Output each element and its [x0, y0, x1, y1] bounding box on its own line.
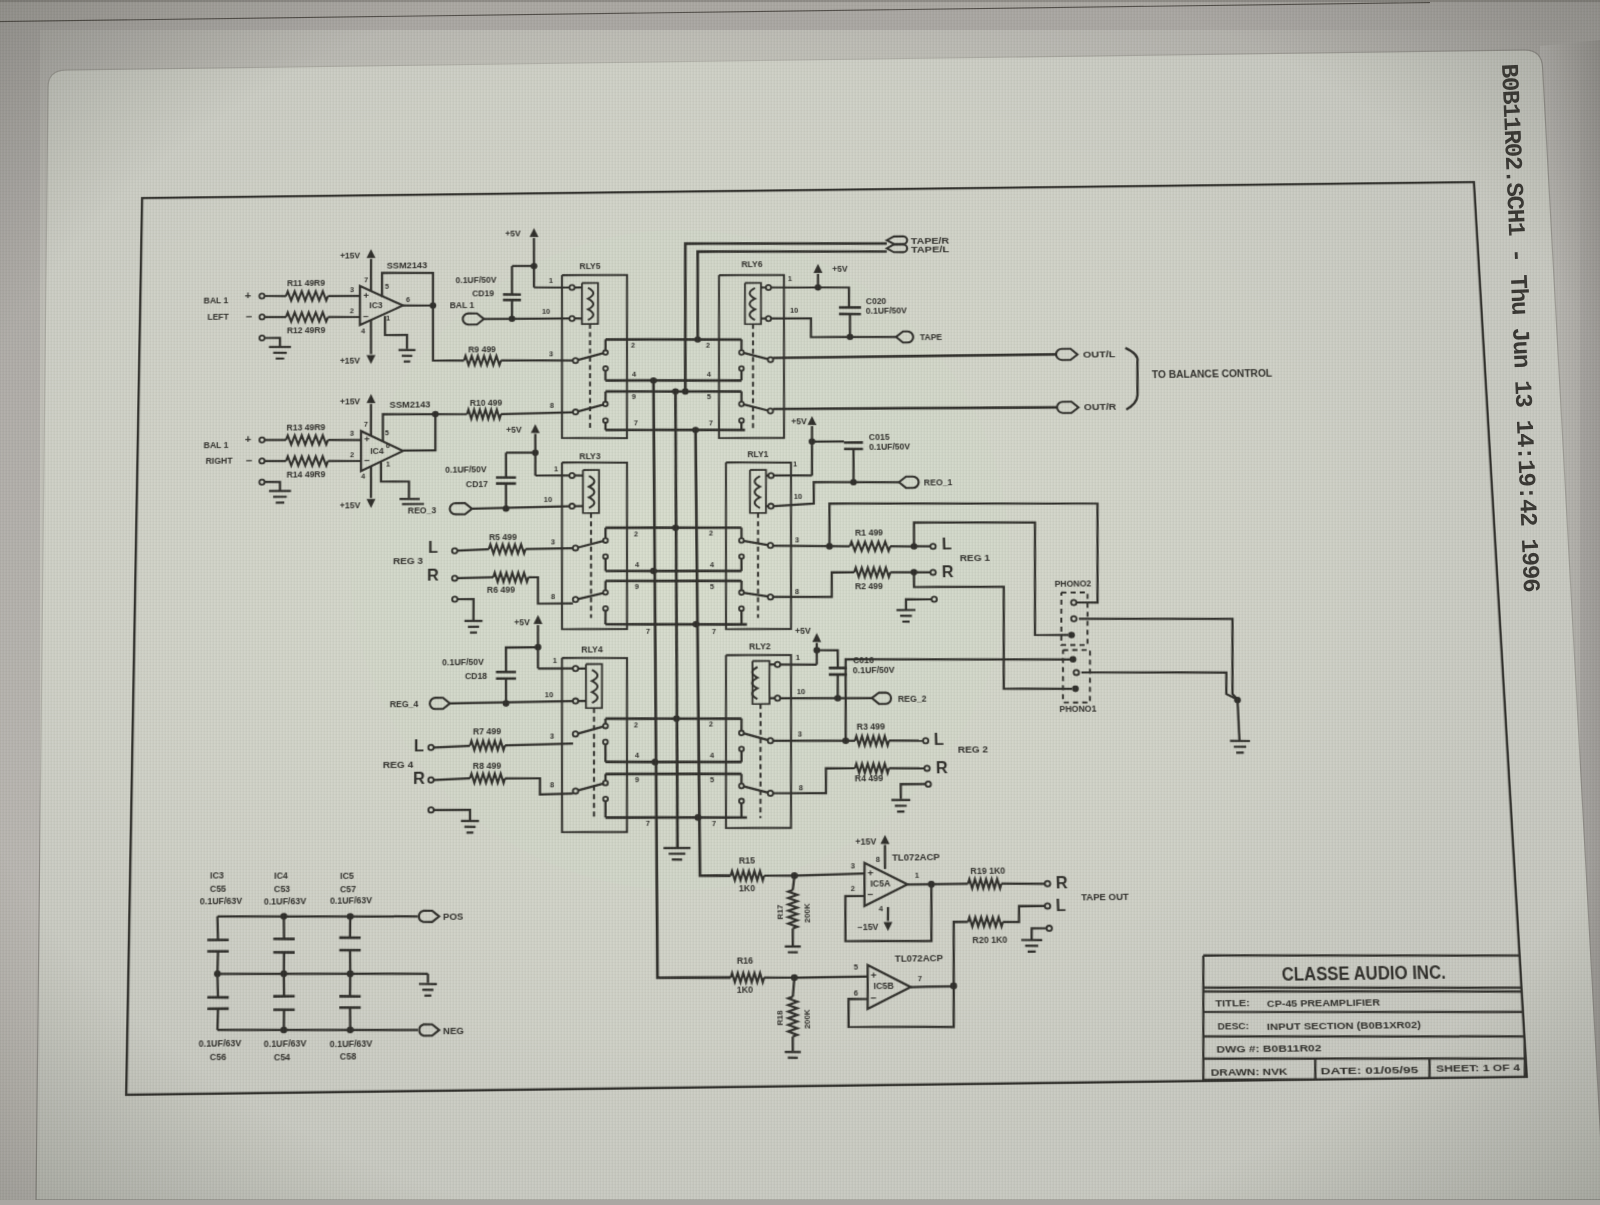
junction — [650, 377, 657, 383]
resistor R10 499 — [467, 409, 501, 419]
RLY6 switch A throws — [739, 350, 744, 355]
wire RLY2 swA to R3 — [773, 740, 855, 742]
wire IC5A out — [907, 883, 968, 886]
wire — [771, 287, 849, 309]
wire — [528, 577, 573, 604]
net tag NEG — [419, 1024, 439, 1036]
wire — [265, 460, 286, 463]
resistor R5 499 — [489, 544, 526, 554]
schematic border frame — [126, 182, 1527, 1095]
terminal R TAPE OUT — [1045, 881, 1051, 886]
junction — [692, 427, 699, 434]
RLY5 switch A throws — [603, 350, 608, 355]
wire — [1001, 883, 1045, 884]
RLY2 coil pin1 — [775, 662, 780, 667]
resistor R15 1K0 — [731, 871, 765, 881]
wire — [450, 701, 573, 703]
wire OUT/R — [773, 406, 1057, 411]
RLY3 coil box — [583, 470, 600, 513]
wire — [773, 474, 812, 477]
RLY6 coil box — [744, 283, 761, 324]
RLY2 switch A throws — [739, 731, 744, 736]
op-amp IC5B TL072ACP — [867, 965, 912, 1009]
tier2 pin4 bus — [606, 569, 742, 572]
wire RLY2 swB to R4 — [773, 768, 856, 794]
net tag REO_1 — [899, 476, 919, 488]
wire bus R channel — [694, 430, 731, 876]
RLY6 coil pin10 — [766, 316, 771, 321]
RLY6 throw stubs A — [740, 340, 743, 351]
RLY6 switch B throws — [739, 402, 744, 407]
RLY3 switch A common — [573, 545, 578, 550]
title block rule 3 — [1203, 1032, 1524, 1040]
wire RLY1 swA to R1 — [773, 545, 850, 547]
RLY4 stubs B — [604, 774, 606, 781]
wire — [265, 295, 286, 298]
wire — [890, 545, 930, 548]
RLY3 coil pin1 — [569, 473, 574, 478]
net tag TAPE — [896, 331, 913, 342]
resistor R2 499 — [854, 567, 890, 577]
RLY5 coil pin10 — [569, 316, 574, 321]
PHONO2 pin1 — [1071, 600, 1077, 605]
wire — [501, 360, 573, 362]
IC5B feedback — [848, 986, 955, 1029]
REG3 ground terminal — [452, 597, 457, 602]
IC5A feedback — [844, 884, 933, 942]
TAPE OUT ground terminal — [1046, 926, 1052, 931]
wire PHONO2 route2 — [913, 521, 1068, 637]
RLY1 switch A common — [768, 543, 773, 548]
resistor R20 1K0 — [968, 917, 1003, 927]
op-amp IC4 SSM2143 — [361, 431, 403, 471]
terminal L TAPE OUT — [1045, 903, 1051, 908]
wire — [433, 746, 470, 748]
wire — [328, 439, 361, 442]
title block rule 2 — [1203, 1008, 1525, 1016]
wire to IC5B pin5 — [794, 976, 867, 977]
wire — [265, 439, 286, 442]
wire IC3 output — [403, 304, 433, 307]
wire to R9 — [433, 305, 464, 361]
RLY3 stubs B — [604, 581, 606, 590]
RLY2 switch B arm — [743, 786, 768, 793]
terminal R REG1 — [930, 570, 935, 575]
wire L to R20 — [1002, 906, 1045, 922]
IC3 pin1 ground — [385, 316, 407, 350]
RLY4 coil pin1 — [573, 666, 578, 671]
RLY5 switch B common — [573, 409, 578, 414]
RLY4 actuator dashed — [593, 708, 595, 820]
RLY1 switch A arm — [744, 541, 768, 546]
RLY5 switch A common — [573, 358, 578, 363]
wire — [328, 294, 360, 297]
wire PHONO1 gnd — [1081, 671, 1237, 702]
tier1 pin4 bus — [605, 379, 741, 382]
wire — [457, 576, 493, 579]
RLY1 switch B arm — [743, 592, 768, 596]
wire — [889, 739, 923, 742]
wire — [952, 922, 970, 986]
RLY1 stubs A — [740, 528, 743, 538]
resistor R6 499 — [493, 572, 528, 582]
net tag TAPE/L — [887, 244, 908, 252]
resistor R17 200K — [788, 890, 798, 928]
relay RLY1 box — [723, 462, 794, 630]
PHONO2 pin3 — [1068, 632, 1075, 639]
RLY2 switch A common — [768, 738, 773, 743]
terminal L REG1 — [930, 544, 935, 549]
junction — [673, 715, 680, 722]
RLY5 coil — [588, 288, 594, 320]
capacitor C53 — [283, 916, 286, 939]
RLY5 throw stubs — [604, 339, 606, 350]
resistor R7 499 — [470, 741, 505, 751]
RLY4 coil box — [586, 664, 603, 708]
RLY5 coil pin1 — [569, 285, 574, 290]
net tag REG_4 — [430, 698, 450, 710]
resistor R11 49R9 — [286, 291, 328, 301]
RLY3 stubs A — [604, 528, 606, 538]
op-amp IC5A TL072ACP — [863, 862, 908, 906]
wire PHONO2 gnd — [1079, 617, 1238, 702]
RLY5 switch B throws — [603, 402, 608, 407]
RLY6 switch A common — [768, 357, 773, 362]
RLY4 switch B throws — [603, 781, 608, 786]
RLY4 coil pin10 — [573, 698, 578, 703]
RLY2 actuator dashed — [758, 704, 762, 818]
relay RLY2 box — [723, 654, 794, 829]
PHONO1 pin2 — [1074, 670, 1080, 675]
RLY2 stubs A — [740, 719, 743, 731]
resistor R14 49R9 — [286, 456, 328, 466]
capacitor C56 — [217, 974, 218, 998]
net tag OUT/R — [1057, 402, 1079, 414]
wire ground rail — [217, 971, 428, 976]
wire — [534, 286, 570, 289]
ground phono — [1238, 700, 1240, 740]
wire RLY1 swB to R2 — [773, 572, 855, 598]
tier3 pin9 bus — [606, 772, 742, 775]
tier1 pin9 bus — [606, 390, 742, 393]
capacitor C58 — [349, 974, 351, 996]
wire — [890, 571, 930, 574]
ground — [259, 335, 264, 340]
tier1 pin2 bus — [605, 338, 741, 341]
RLY3 coil pin10 — [569, 504, 574, 509]
wire IC5B out — [911, 985, 954, 988]
REG4 ground terminal — [428, 807, 433, 812]
wire NEG rail — [217, 1027, 417, 1032]
REG2 ground terminal — [926, 781, 932, 786]
title block divider 1 — [1314, 1059, 1316, 1080]
wire bus ground — [672, 391, 682, 847]
RLY3 switch B arm — [578, 593, 604, 599]
RLY4 coil — [592, 670, 598, 703]
PHONO1 pin1 — [1069, 656, 1076, 663]
RLY1 coil box — [749, 470, 767, 513]
wire TAPE/L line — [696, 249, 888, 339]
RLY4 switch B arm — [578, 784, 604, 791]
net tag TAPE/R — [887, 236, 908, 244]
RLY6 actuator dashed — [751, 324, 755, 428]
resistor R19 1K0 — [968, 879, 1002, 889]
wire TAPE/R line — [683, 241, 890, 391]
net name REO_3 — [402, 503, 424, 506]
relay RLY3 box — [561, 462, 629, 630]
RLY3 switch A throws — [603, 538, 608, 543]
RLY6 coil pin1 — [766, 285, 771, 290]
wire — [472, 506, 569, 508]
RLY2 coil — [752, 667, 758, 699]
RLY5 throw stubs B — [604, 391, 606, 401]
capacitor C020 0.1UF/50V — [839, 306, 861, 309]
RLY3 switch B common — [573, 597, 578, 602]
wire — [484, 318, 570, 320]
tier2 pin9 bus — [605, 579, 741, 582]
RLY3 actuator dashed — [590, 513, 592, 618]
RLY6 switch B common — [768, 408, 773, 413]
RLY2 switch B common — [768, 791, 773, 796]
resistor R8 499 — [470, 773, 505, 783]
wire — [505, 777, 573, 794]
wire OUT/L — [773, 354, 1056, 358]
RLY2 switch B throws — [739, 784, 744, 789]
net tag POS — [419, 911, 439, 923]
wire PHONO2 route1 — [829, 500, 1102, 606]
tier3 pin2 bus — [605, 717, 741, 720]
wire pin10 REO_1 — [773, 481, 899, 506]
RLY5 coil box — [582, 283, 599, 324]
terminal L REG2 — [923, 738, 929, 743]
RLY3 switch A arm — [578, 541, 604, 548]
wire — [434, 778, 470, 780]
resistor R9 499 — [464, 355, 501, 365]
RLY4 switch A arm — [578, 727, 604, 734]
PHONO2 pin2 — [1071, 616, 1077, 621]
wire IC4 output — [403, 414, 435, 451]
RLY6 switch A arm — [744, 352, 768, 359]
title block rule 1 — [1203, 984, 1524, 992]
connector PHONO2 — [1060, 592, 1090, 645]
tier3 pin4 bus — [606, 760, 742, 763]
junction — [652, 759, 659, 766]
resistor R18 200K — [788, 997, 799, 1037]
title block divider 2 — [1428, 1059, 1430, 1080]
wire to IC5A pin3 — [794, 873, 864, 875]
wire — [457, 549, 489, 550]
resistor R4 499 — [855, 763, 889, 773]
net tag REG_2 — [872, 692, 891, 704]
junction — [695, 814, 702, 821]
tier2 pin2 bus — [606, 526, 742, 529]
net tag REO_3 — [450, 503, 472, 515]
RLY5 switch A arm — [578, 353, 604, 360]
ground decoupling — [427, 974, 429, 983]
ground matrix — [663, 847, 690, 850]
connector PHONO1 — [1061, 650, 1092, 703]
wire — [764, 874, 794, 877]
wire bus L channel — [651, 380, 731, 979]
title block rule 4 — [1203, 1055, 1524, 1063]
relay RLY5 box — [561, 274, 629, 439]
capacitor CD18 0.1UF/50V — [496, 670, 516, 673]
RLY6 switch B arm — [743, 404, 768, 411]
REG1 ground terminal — [931, 597, 936, 602]
RLY1 switch B common — [768, 594, 773, 599]
capacitor CD19 0.1UF/50V — [503, 293, 521, 296]
resistor R12 49R9 — [286, 312, 328, 322]
RLY4 switch B common — [573, 788, 578, 793]
RLY2 stubs B — [740, 774, 743, 784]
op-amp IC3 SSM2143 — [360, 285, 403, 325]
wire — [328, 316, 360, 319]
tier3 pin7 bus — [605, 816, 746, 820]
RLY1 coil pin1 — [768, 473, 773, 478]
RLY1 coil — [754, 476, 760, 508]
wire pin10 REG_2 — [780, 697, 872, 699]
RLY1 actuator dashed — [756, 513, 760, 618]
RLY3 coil — [589, 476, 595, 508]
wire — [265, 316, 286, 319]
RLY1 switch B throws — [739, 590, 744, 595]
wire — [889, 767, 924, 770]
RLY1 switch A throws — [739, 538, 744, 543]
resistor R3 499 — [855, 736, 889, 746]
IC4 feedback loop — [383, 414, 436, 442]
RLY2 switch A arm — [744, 733, 768, 740]
RLY5 switch B arm — [578, 405, 604, 412]
wire POS rail — [217, 914, 417, 919]
tier2 pin7 bus — [605, 623, 747, 627]
capacitor C015 0.1UF/50V — [844, 441, 863, 444]
R17 termination — [791, 928, 794, 945]
tier1 pin7 bus — [605, 428, 745, 431]
capacitor C54 — [283, 974, 286, 996]
junction — [693, 621, 700, 628]
junction — [672, 388, 679, 395]
RLY1 stubs B — [740, 581, 743, 590]
wire — [538, 667, 573, 670]
ground — [259, 479, 264, 484]
junction — [1234, 697, 1241, 704]
brace to balance control — [1124, 348, 1140, 410]
wire — [526, 547, 573, 550]
RLY3 switch B throws — [603, 590, 608, 595]
resistor R1 499 — [850, 541, 891, 551]
junction — [650, 568, 657, 575]
wire PHONO1 route3 — [914, 570, 1072, 690]
capacitor C016 0.1UF/50V — [829, 666, 847, 669]
capacitor CD17 0.1UF/50V — [496, 476, 516, 479]
wire pin10 to TAPE — [771, 317, 896, 339]
capacitor C57 — [349, 916, 351, 937]
relay RLY6 box — [717, 274, 788, 439]
wire — [501, 412, 573, 414]
PHONO1 pin3 — [1072, 685, 1079, 692]
RLY5 actuator dashed — [589, 324, 591, 428]
junction — [672, 524, 679, 531]
capacitor C55 — [217, 916, 218, 940]
RLY6 throw stubs B — [740, 391, 743, 401]
title block outer box — [1198, 951, 1532, 1083]
wire PHONO1 route4 — [844, 657, 1073, 741]
wire — [435, 413, 467, 416]
wire — [764, 976, 794, 979]
RLY6 coil — [749, 288, 755, 320]
wire — [505, 744, 573, 746]
RLY2 coil pin10 — [775, 696, 780, 701]
IC3 feedback loop — [382, 272, 433, 306]
RLY4 stubs A — [604, 719, 606, 724]
resistor R16 1K0 — [731, 973, 765, 983]
IC4 pin1 bar — [381, 462, 409, 499]
resistor R13 49R9 — [286, 435, 328, 445]
RLY1 coil pin10 — [768, 504, 773, 509]
wire — [780, 663, 817, 666]
net tag OUT/L — [1056, 349, 1078, 361]
R18 termination — [791, 1037, 794, 1051]
relay RLY4 box — [561, 657, 629, 833]
wire — [328, 459, 361, 462]
RLY2 coil box — [752, 661, 770, 704]
RLY4 switch A throws — [603, 724, 608, 729]
RLY4 switch A common — [573, 731, 578, 736]
terminal R REG2 — [924, 766, 930, 771]
wire — [535, 474, 569, 477]
